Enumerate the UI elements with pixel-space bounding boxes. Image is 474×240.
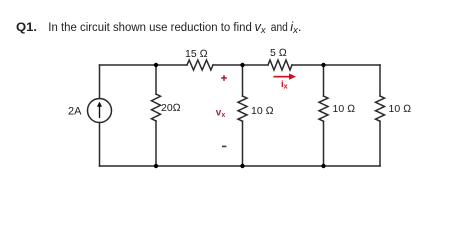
resistor R 20-ohm (vertical zigzag) — [152, 94, 161, 121]
branch wire third 10-ohm bottom — [323, 121, 325, 166]
svg-text:10 Ω: 10 Ω — [251, 105, 274, 117]
svg-text:Q1.: Q1. — [16, 20, 37, 34]
branch wire third 10-ohm top — [323, 65, 325, 96]
svg-text:In the circuit shown use reduc: In the circuit shown use reduction to fi… — [48, 20, 252, 34]
svg-text:15 Ω: 15 Ω — [185, 48, 208, 60]
wire bottom rail — [100, 165, 381, 167]
node dot top mid 10-ohm — [240, 63, 244, 67]
branch wire 20-ohm top — [155, 65, 157, 94]
resistor R 5-ohm (horizontal zigzag) — [268, 60, 292, 70]
wire left bottom — [99, 123, 101, 167]
current arrow ix (red) — [274, 73, 297, 79]
branch wire mid 10-ohm bottom — [242, 121, 244, 166]
resistor R 15-ohm (horizontal zigzag) — [187, 60, 213, 70]
resistor R mid 10-ohm (vertical zigzag) — [238, 96, 247, 121]
node dot bottom mid 10-ohm — [240, 164, 244, 168]
wire top: left corner to 15-ohm resistor — [100, 64, 188, 66]
label plus sign (vx polarity) — [221, 75, 227, 81]
svg-text:2A: 2A — [68, 106, 82, 118]
svg-text:10 Ω: 10 Ω — [389, 103, 412, 115]
resistor R rightmost 10-ohm (vertical zigzag) — [376, 96, 385, 121]
current source I1 2A circle — [88, 99, 112, 123]
node dot bottom 20-ohm — [154, 164, 158, 168]
title question text — [16, 19, 301, 36]
node dot top third 10-ohm — [321, 63, 325, 67]
wire right side down — [379, 65, 381, 96]
branch wire mid 10-ohm top — [242, 65, 244, 96]
wire top: 5-ohm to top-right corner — [292, 64, 380, 66]
svg-text:and: and — [271, 20, 288, 34]
wire right bottom — [379, 121, 381, 166]
node dot bottom third 10-ohm — [321, 164, 325, 168]
wire top: between 15-ohm and 5-ohm — [213, 64, 268, 66]
branch wire 20-ohm bottom — [155, 121, 157, 166]
current source arrow (inside circle, pointing up) — [97, 102, 102, 119]
node dot top 20-ohm — [154, 63, 158, 67]
svg-text:5 Ω: 5 Ω — [270, 47, 287, 59]
wire left top (source to top rail) — [99, 65, 101, 99]
label minus sign (vx polarity) — [222, 146, 226, 148]
svg-text:20Ω: 20Ω — [161, 102, 181, 114]
svg-text:10 Ω: 10 Ω — [333, 103, 356, 115]
resistor R third 10-ohm (vertical zigzag) — [319, 96, 328, 121]
